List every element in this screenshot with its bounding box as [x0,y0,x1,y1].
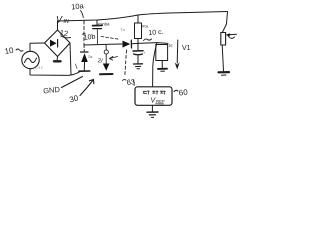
control box korean text scribbles [144,91,159,94]
label 63 squiggle [123,79,127,80]
label 20 arrow [110,57,118,61]
zener anode wire [83,62,85,70]
ac source V1 circle [22,51,39,68]
dashed leader to 63 [125,50,127,76]
test point circle [104,50,108,54]
label 12 tail swoosh [61,36,71,38]
ground G5 bar2 [222,74,227,76]
svg-text:IN: IN [64,19,69,25]
svg-text:12: 12 [59,28,69,38]
svg-text:+: + [144,51,146,55]
node wire W1 horizontal [84,44,122,45]
ground G3 bar [158,68,167,70]
ground G5 bar [219,71,230,73]
label 10 leader squiggle [16,49,23,51]
resistor R1 bottom stub [137,39,139,50]
capacitor C1 top plate [93,24,103,26]
capacitor C1 lower stub [96,29,98,44]
load arrow line [229,33,237,36]
top rail Vin [58,12,228,22]
wire bridge top to rail [57,21,59,30]
right rail drop [222,12,227,33]
bridge bottom bar [54,60,61,62]
stray dash left of zener [76,64,78,69]
wire W1 right of diode [132,43,168,44]
bridge rectifier BR1 diamond [45,30,71,57]
load arrow curl [229,37,235,39]
bridge bottom stub [56,57,58,61]
svg-text:30: 30 [68,93,79,104]
svg-text:Dz: Dz [89,55,93,59]
30 leader arrow [80,80,94,96]
resistor R2 bottom stub [161,61,163,68]
load arrowhead [226,33,230,36]
diode D2 triangle [123,41,131,48]
wire bridge right vertex down [70,43,71,75]
svg-text:10a: 10a [71,1,85,11]
zener D3 cathode bar [81,51,89,53]
ground G4 bar3 [151,116,153,118]
bridge diode triangle [50,40,57,47]
bridge diode bar [57,40,59,48]
svg-text:V: V [56,15,63,25]
svg-text:GND: GND [43,85,61,96]
wire ac top to bridge left [30,43,45,51]
label 10a leader arrow [81,11,84,18]
ac source sine wave [25,58,37,63]
resistor R2 box [156,45,168,61]
GND leader arrow [62,77,83,88]
capacitor C2 top plate [133,50,143,52]
capacitor C2 bottom plate [134,53,143,56]
label 60 squiggle [174,90,178,91]
Vref underline [156,103,164,105]
capacitor C1 bottom plate [93,28,102,30]
ground G3 bar2 [161,70,165,72]
zener branch dashed lower [83,45,85,52]
control box 40 [135,87,172,106]
test point stub [105,45,107,50]
load bottom wire [222,45,223,71]
diode D2 cathode bar [130,40,132,48]
capacitor C2 bottom stub [137,56,139,64]
svg-text:10: 10 [4,46,15,56]
svg-text:10 c.: 10 c. [148,29,164,37]
V1 arrow line [176,40,179,63]
zener branch dashed upper [83,21,85,45]
dash into box corner [133,81,136,86]
svg-text:REF: REF [156,99,165,104]
squiggle above W1 [144,39,152,41]
load box [221,33,226,46]
svg-text:10b: 10b [83,34,96,42]
zener D3 triangle [81,53,88,62]
svg-text:2/: 2/ [97,58,103,65]
wire W1 down to control box [153,43,157,86]
capacitor C1 top stub [96,20,98,25]
label 10b squiggle [83,33,86,34]
svg-text:16: 16 [168,43,174,49]
wire ac bottom to bottom rail [30,69,80,76]
resistor R1 box [135,23,142,39]
ground G4 bar1 [147,111,158,113]
svg-text:T.o: T.o [121,28,125,32]
resistor R1 top stub [137,15,139,23]
ground G2 bar1 [134,63,143,65]
ground G2 bar3 [137,68,140,70]
svg-text:60: 60 [178,88,188,98]
V1 arrowhead [175,62,180,69]
control box bottom stub [151,105,153,111]
svg-text:Cmba: Cmba [98,21,110,27]
svg-text:R0a: R0a [142,25,148,29]
diode lower D4 triangle [103,64,110,71]
label 10b dashed leader [101,37,119,40]
svg-text:AC 6.2: AC 6.2 [34,66,44,70]
ground bar under D4 [100,73,113,75]
diode lower D4 stub [105,54,107,63]
ground G2 bar2 [136,65,141,67]
svg-text:V1: V1 [182,45,191,52]
ground G4 bar2 [149,114,155,116]
zener bottom T bar [79,70,90,72]
